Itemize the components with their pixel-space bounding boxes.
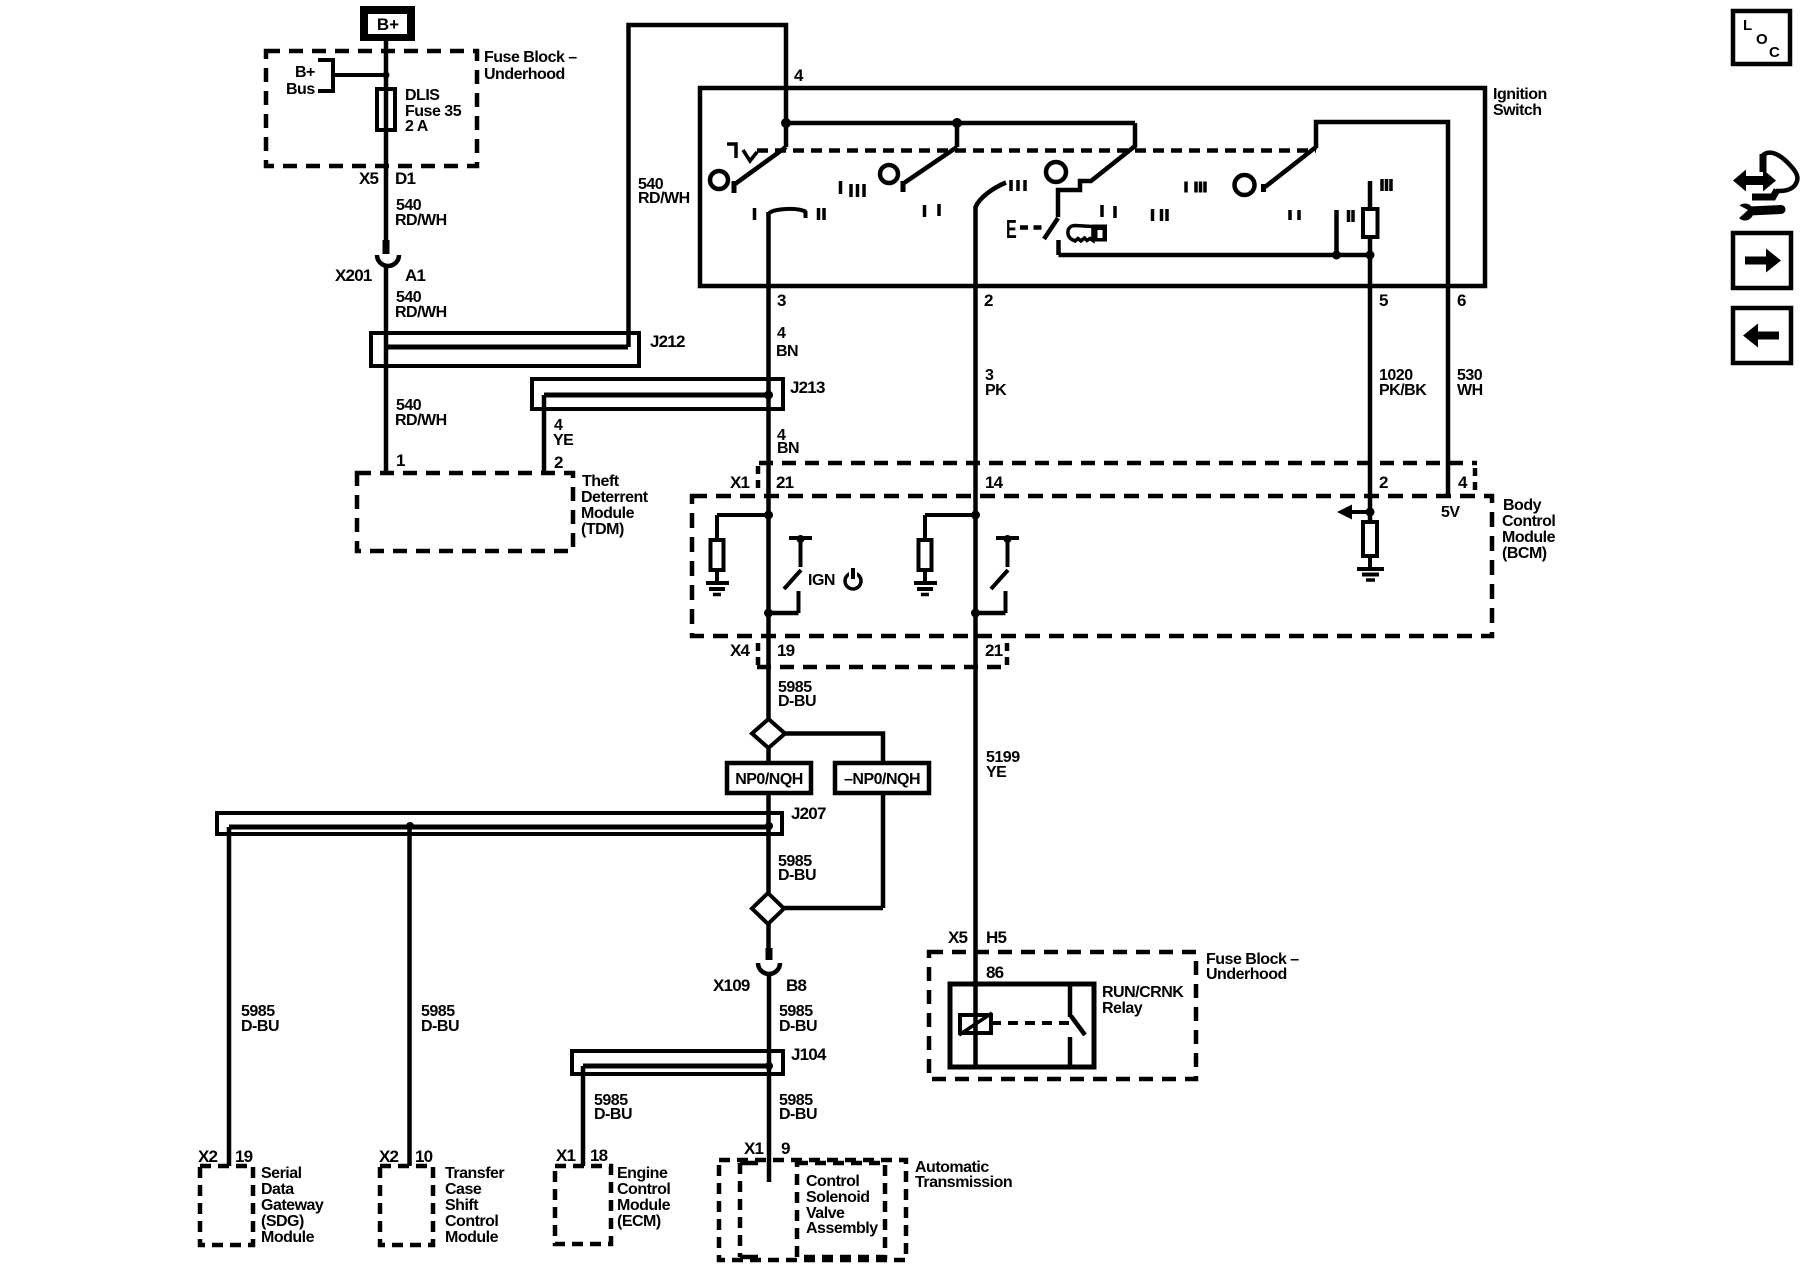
- svg-text:Control: Control: [617, 1181, 670, 1198]
- svg-text:19: 19: [235, 1147, 253, 1166]
- svg-text:2 A: 2 A: [405, 118, 429, 135]
- svg-text:A1: A1: [405, 266, 425, 285]
- svg-text:B+: B+: [295, 64, 315, 81]
- svg-text:X4: X4: [730, 641, 751, 660]
- svg-text:Control: Control: [445, 1213, 498, 1230]
- svg-text:D-BU: D-BU: [778, 693, 816, 710]
- svg-text:X5: X5: [359, 169, 379, 188]
- svg-text:RUN/CRNK: RUN/CRNK: [1102, 984, 1184, 1001]
- svg-text:Switch: Switch: [1493, 102, 1542, 119]
- svg-text:YE: YE: [986, 764, 1007, 781]
- svg-text:WH: WH: [1457, 382, 1483, 399]
- svg-text:D-BU: D-BU: [421, 1018, 459, 1035]
- svg-text:Deterrent: Deterrent: [581, 489, 649, 506]
- svg-text:X109: X109: [713, 976, 750, 995]
- svg-text:Serial: Serial: [261, 1165, 302, 1182]
- svg-text:PK: PK: [985, 382, 1007, 399]
- svg-text:E: E: [1006, 214, 1017, 244]
- svg-text:X2: X2: [379, 1147, 399, 1166]
- svg-text:B+: B+: [377, 15, 399, 34]
- svg-text:C: C: [1769, 44, 1780, 61]
- svg-text:5: 5: [1379, 291, 1388, 310]
- svg-text:X201: X201: [335, 266, 372, 285]
- svg-text:Transmission: Transmission: [915, 1174, 1012, 1191]
- svg-text:O: O: [1756, 31, 1768, 48]
- svg-text:2: 2: [1379, 473, 1388, 492]
- svg-text:9: 9: [781, 1139, 790, 1158]
- svg-text:Data: Data: [261, 1181, 294, 1198]
- svg-text:86: 86: [986, 963, 1004, 982]
- svg-text:10: 10: [415, 1147, 433, 1166]
- svg-text:Engine: Engine: [617, 1165, 668, 1182]
- svg-text:Underhood: Underhood: [484, 66, 565, 83]
- svg-text:X1: X1: [556, 1146, 576, 1165]
- svg-text:X5: X5: [948, 928, 968, 947]
- svg-text:Module: Module: [445, 1229, 499, 1246]
- svg-text:B8: B8: [786, 976, 806, 995]
- svg-text:L: L: [1743, 17, 1752, 34]
- svg-text:(BCM): (BCM): [1502, 545, 1547, 562]
- svg-text:Module: Module: [617, 1197, 671, 1214]
- svg-text:Assembly: Assembly: [806, 1220, 878, 1237]
- svg-text:D-BU: D-BU: [779, 1106, 817, 1123]
- svg-text:5V: 5V: [1441, 504, 1460, 521]
- svg-text:19: 19: [777, 641, 795, 660]
- svg-text:D-BU: D-BU: [778, 867, 816, 884]
- svg-text:RD/WH: RD/WH: [395, 212, 447, 229]
- svg-text:2: 2: [984, 291, 993, 310]
- svg-text:4: 4: [794, 66, 804, 85]
- svg-text:Gateway: Gateway: [261, 1197, 324, 1214]
- svg-text:X1: X1: [730, 473, 750, 492]
- svg-text:D-BU: D-BU: [779, 1018, 817, 1035]
- svg-text:D1: D1: [395, 169, 415, 188]
- svg-text:D-BU: D-BU: [594, 1106, 632, 1123]
- svg-text:21: 21: [985, 641, 1003, 660]
- svg-text:4: 4: [777, 325, 786, 342]
- svg-text:J207: J207: [791, 804, 826, 823]
- svg-text:RD/WH: RD/WH: [395, 412, 447, 429]
- svg-text:YE: YE: [553, 432, 574, 449]
- svg-text:18: 18: [590, 1146, 608, 1165]
- svg-text:Transfer: Transfer: [445, 1165, 504, 1182]
- svg-text:H5: H5: [986, 928, 1006, 947]
- svg-text:6: 6: [1457, 291, 1466, 310]
- svg-text:Shift: Shift: [445, 1197, 479, 1214]
- svg-text:21: 21: [776, 473, 794, 492]
- svg-text:DLIS: DLIS: [405, 87, 440, 104]
- svg-text:X1: X1: [744, 1139, 764, 1158]
- svg-text:–NP0/NQH: –NP0/NQH: [844, 771, 920, 788]
- svg-text:BN: BN: [776, 343, 798, 360]
- svg-text:Control: Control: [1502, 513, 1555, 530]
- svg-text:BN: BN: [777, 440, 799, 457]
- svg-text:Ignition: Ignition: [1493, 86, 1547, 103]
- svg-text:(TDM): (TDM): [581, 521, 624, 538]
- svg-text:Bus: Bus: [286, 81, 315, 98]
- svg-text:Body: Body: [1503, 497, 1542, 514]
- svg-text:3: 3: [777, 291, 786, 310]
- svg-text:Fuse Block –: Fuse Block –: [484, 49, 577, 66]
- svg-text:NP0/NQH: NP0/NQH: [735, 771, 803, 788]
- svg-text:Solenoid: Solenoid: [806, 1189, 870, 1206]
- svg-text:(SDG): (SDG): [261, 1213, 304, 1230]
- svg-text:Module: Module: [1502, 529, 1556, 546]
- svg-text:J213: J213: [790, 378, 825, 397]
- svg-text:J104: J104: [791, 1045, 827, 1064]
- svg-text:Module: Module: [261, 1229, 315, 1246]
- svg-text:PK/BK: PK/BK: [1379, 382, 1427, 399]
- svg-text:Module: Module: [581, 505, 635, 522]
- svg-text:D-BU: D-BU: [241, 1018, 279, 1035]
- svg-text:IGN: IGN: [808, 572, 835, 589]
- svg-text:Relay: Relay: [1102, 1000, 1143, 1017]
- svg-text:(ECM): (ECM): [617, 1213, 661, 1230]
- svg-text:Case: Case: [445, 1181, 482, 1198]
- svg-text:Theft: Theft: [582, 473, 620, 490]
- svg-text:X2: X2: [198, 1147, 218, 1166]
- svg-text:RD/WH: RD/WH: [638, 190, 690, 207]
- svg-text:Underhood: Underhood: [1206, 966, 1287, 983]
- svg-text:14: 14: [985, 473, 1004, 492]
- svg-text:Control: Control: [806, 1173, 859, 1190]
- svg-text:J212: J212: [650, 332, 685, 351]
- svg-text:RD/WH: RD/WH: [395, 304, 447, 321]
- svg-text:4: 4: [1458, 473, 1468, 492]
- svg-text:2: 2: [554, 453, 563, 472]
- svg-text:1: 1: [396, 451, 405, 470]
